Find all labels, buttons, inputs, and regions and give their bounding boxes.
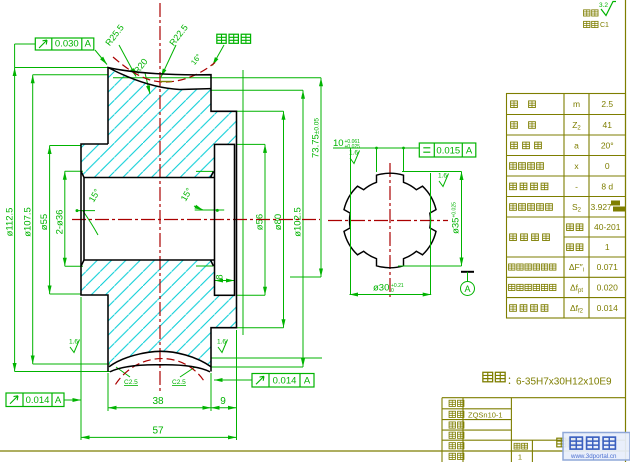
svg-text:0.030: 0.030 xyxy=(55,39,79,50)
svg-text:6-35H7x30H12x10E9: 6-35H7x30H12x10E9 xyxy=(516,377,612,388)
svg-text:41: 41 xyxy=(603,120,613,130)
svg-text:0.020: 0.020 xyxy=(597,282,619,292)
svg-text:0.015: 0.015 xyxy=(436,146,460,157)
svg-text:ø102.5: ø102.5 xyxy=(293,207,304,237)
svg-text:-: - xyxy=(575,181,578,191)
svg-text:ø80: ø80 xyxy=(273,214,284,230)
svg-text:40-201: 40-201 xyxy=(594,222,621,232)
svg-text:1.6: 1.6 xyxy=(217,339,226,346)
svg-text:8 d: 8 d xyxy=(601,181,613,191)
svg-text:0.014: 0.014 xyxy=(597,303,619,313)
svg-text:A: A xyxy=(464,284,470,294)
svg-text:ø107.5: ø107.5 xyxy=(22,207,33,237)
svg-text:ZQSn10-1: ZQSn10-1 xyxy=(468,411,503,420)
svg-text:A: A xyxy=(466,146,473,157)
svg-text:1.6: 1.6 xyxy=(69,339,78,346)
svg-text:C1: C1 xyxy=(600,22,609,29)
svg-text:1: 1 xyxy=(605,242,610,252)
svg-text:C2.5: C2.5 xyxy=(124,379,138,386)
svg-text:10: 10 xyxy=(333,138,344,149)
svg-text:57: 57 xyxy=(152,426,164,437)
svg-text:+0.025: +0.025 xyxy=(345,144,361,150)
svg-text:ø30: ø30 xyxy=(373,283,389,294)
svg-text:9: 9 xyxy=(220,396,226,407)
svg-text:ø55: ø55 xyxy=(39,214,50,230)
svg-text:20°: 20° xyxy=(601,140,614,150)
svg-text:38: 38 xyxy=(152,396,164,407)
svg-text:1.6: 1.6 xyxy=(438,173,447,180)
svg-text:www.3dportal.cn: www.3dportal.cn xyxy=(570,453,617,460)
svg-text:8: 8 xyxy=(215,274,225,279)
svg-text:ΔF″i: ΔF″i xyxy=(569,262,584,274)
svg-text:0.071: 0.071 xyxy=(597,262,619,272)
svg-text:2-ø36: 2-ø36 xyxy=(54,210,65,235)
svg-text:A: A xyxy=(304,376,311,387)
svg-text:3.927: 3.927 xyxy=(591,202,613,212)
svg-text:m: m xyxy=(573,99,580,109)
svg-text:1: 1 xyxy=(518,453,522,462)
svg-text:A: A xyxy=(85,39,92,50)
svg-text:C2.5: C2.5 xyxy=(172,379,186,386)
svg-text:0.014: 0.014 xyxy=(26,395,50,406)
svg-text:0: 0 xyxy=(605,161,610,171)
svg-text:2.5: 2.5 xyxy=(601,99,613,109)
svg-text:ø112.5: ø112.5 xyxy=(4,208,15,237)
svg-text:3.2: 3.2 xyxy=(599,2,608,9)
svg-text:a: a xyxy=(574,140,579,150)
svg-text:A: A xyxy=(55,395,62,406)
svg-text:0: 0 xyxy=(391,288,394,294)
svg-text:ø56: ø56 xyxy=(255,214,266,230)
svg-text:0.014: 0.014 xyxy=(273,376,297,387)
